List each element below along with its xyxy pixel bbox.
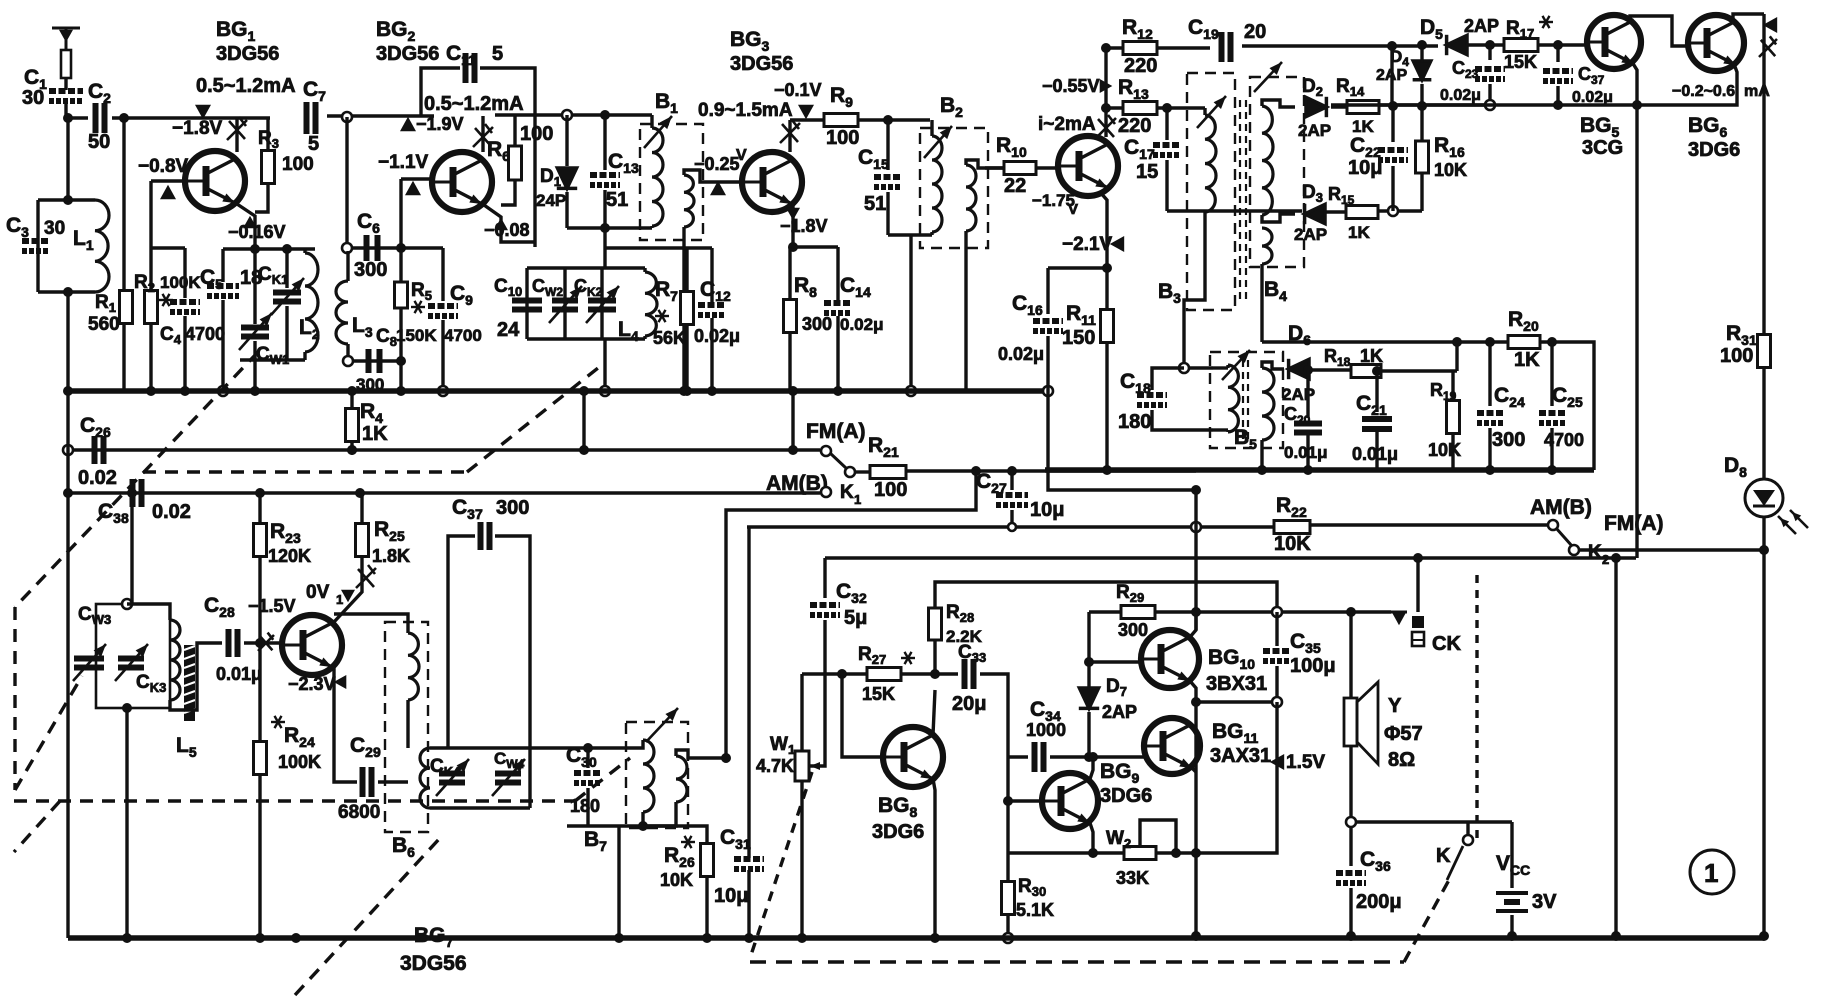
svg-text:1K: 1K <box>1360 346 1383 366</box>
wire W1 top to R27 <box>802 672 866 675</box>
wire C11 to right loop <box>480 68 535 247</box>
wire R5 bottom <box>399 308 402 361</box>
wire tank bottom <box>38 290 68 293</box>
B1 primary coil <box>652 128 663 226</box>
wire speaker bottom <box>1349 746 1352 822</box>
B2 tuning arrow <box>924 126 952 158</box>
base marker BG2 <box>400 117 416 131</box>
wire B2 to R10 <box>985 166 1004 169</box>
wire D7 top <box>1087 662 1090 690</box>
transistor BG5 <box>1587 15 1641 69</box>
capacitor C38 <box>133 479 142 507</box>
svg-text:220: 220 <box>1118 115 1151 137</box>
wire left border <box>66 391 69 938</box>
capacitor C2 <box>96 103 105 133</box>
W2 wiper loop <box>1140 820 1176 853</box>
wire K2 out <box>1578 548 1764 551</box>
svg-text:0.01μ: 0.01μ <box>1352 444 1398 464</box>
wire C7 to BG2 <box>327 114 434 117</box>
circled 1 <box>1690 850 1734 894</box>
svg-text:10μ: 10μ <box>714 885 748 907</box>
wire B2 secondary to R10 <box>966 160 1004 168</box>
transistor BG7 <box>282 615 342 675</box>
adjust mark base <box>258 633 274 651</box>
wire tank2 top link <box>605 246 712 249</box>
wire B2 primary bottom <box>930 232 933 235</box>
capacitor C9 <box>428 306 458 316</box>
resistor R25 <box>356 524 369 557</box>
wire mid vertical to bottom bus <box>1614 558 1617 936</box>
wire BG10 base feed <box>1089 612 1141 662</box>
diode D2 <box>1306 97 1326 117</box>
svg-text:10μ: 10μ <box>1348 157 1382 179</box>
wire C9 branch <box>441 248 444 301</box>
svg-text:3DG6: 3DG6 <box>1100 785 1152 807</box>
wire C6 branch <box>345 117 348 248</box>
wire W1 top <box>800 674 803 751</box>
switch K <box>1466 822 1469 834</box>
svg-text:0.02μ: 0.02μ <box>998 344 1044 364</box>
wire C17 bottom <box>1165 160 1168 211</box>
wire C33 out <box>980 674 1008 853</box>
svg-text:V: V <box>736 147 747 164</box>
svg-text:0.01μ: 0.01μ <box>216 664 262 684</box>
variable capacitor CW1 <box>241 328 269 337</box>
wire R9 to B2 <box>858 118 930 121</box>
wire R17 to BG5 <box>1538 43 1586 46</box>
emitter path BG3 <box>791 204 794 247</box>
wire C32 top <box>823 558 826 598</box>
wire R7 bottom <box>685 324 688 391</box>
wire BG1 base <box>151 179 185 182</box>
wire C25 bottom <box>1550 428 1553 470</box>
wire tank2 to bus <box>603 339 606 391</box>
wire C35 down to W2 <box>1156 702 1277 853</box>
wire R25 to BG7 collector <box>334 556 362 622</box>
wire B1 secondary to BG3 base <box>684 170 742 182</box>
transistor BG2 <box>432 152 492 212</box>
resistor R31 <box>1758 335 1771 368</box>
svg-text:100: 100 <box>826 127 859 149</box>
svg-text:10K: 10K <box>1428 440 1461 460</box>
svg-text:50: 50 <box>88 131 110 153</box>
svg-text:K: K <box>840 482 854 503</box>
wire BG6 collector to top right corner <box>1733 14 1764 23</box>
B5 core lines <box>1242 360 1244 440</box>
node tank3 bottom <box>122 703 132 713</box>
transistor BG9 <box>1042 773 1098 829</box>
transistor BG6 <box>1688 15 1744 71</box>
wire R26 bottom <box>705 876 708 938</box>
wire D6 to R18 <box>1310 368 1352 371</box>
wire C13 top <box>603 115 606 170</box>
wire IF takeoff to 2nd tank <box>603 228 606 268</box>
capacitor C17 <box>1153 145 1181 155</box>
svg-text:10K: 10K <box>1434 160 1467 180</box>
svg-text:3DG56: 3DG56 <box>730 53 793 75</box>
svg-text:0.02μ: 0.02μ <box>1440 87 1481 104</box>
emitter path BG4 <box>1100 192 1107 312</box>
wire to R20 <box>1457 340 1508 343</box>
wire to FM contact <box>584 448 820 451</box>
wire BG3 collector <box>788 120 791 152</box>
gang link horizontal <box>143 470 467 473</box>
wire CW2 branch <box>563 268 566 339</box>
svg-text:180: 180 <box>570 796 600 816</box>
wire tank4 right <box>528 748 531 808</box>
wire C26 line <box>72 448 584 451</box>
wire C32 to W1 wiper <box>810 620 825 766</box>
capacitor C7 <box>307 102 316 134</box>
capacitor C1 <box>49 91 83 101</box>
svg-text:−1.1V: −1.1V <box>378 152 429 173</box>
B7 secondary coil <box>676 756 687 802</box>
wire R5 top <box>399 248 402 282</box>
wire main ground bus <box>68 388 1048 394</box>
wire R4 bottom <box>350 442 353 450</box>
antenna <box>52 28 80 50</box>
wire BG2 collector <box>481 116 484 152</box>
wire tank2 top <box>527 266 645 269</box>
wire R20 to C25 branch <box>1540 342 1594 470</box>
wire C38 to tank3 <box>130 493 133 604</box>
svg-text:−0.25: −0.25 <box>694 154 740 174</box>
B3 primary coil <box>1205 115 1216 212</box>
resistor R23 <box>254 524 267 557</box>
wire tank top <box>38 198 68 201</box>
diode D6 <box>1289 359 1309 379</box>
wire tank to bus <box>253 360 256 391</box>
resistor R5 <box>395 282 408 308</box>
wire B1 primary top <box>650 115 653 128</box>
svg-text:4700: 4700 <box>185 324 225 344</box>
capacitor C16 <box>1033 321 1063 331</box>
wire R19 bottom <box>1451 434 1454 470</box>
wire BG4 collector <box>1104 48 1107 137</box>
contact K2 AM <box>1548 520 1558 530</box>
wire C35 bottom <box>1275 666 1278 702</box>
capacitor C37 <box>1543 71 1573 81</box>
B4 tuning arrow <box>1254 62 1282 92</box>
capacitor C29 <box>363 767 372 797</box>
wire output node <box>1196 700 1277 703</box>
switch K1 lever <box>830 453 847 469</box>
wire audio supply top <box>825 556 1636 559</box>
wire right border lower <box>1762 517 1765 936</box>
inductor L3 <box>336 281 348 344</box>
wire C13 bottom <box>603 190 606 228</box>
wire R29 to output node <box>1155 610 1391 613</box>
wire R22 line <box>747 525 1274 528</box>
wire BG2 collector to B1 <box>495 113 652 116</box>
gang link to CK4 <box>295 838 440 995</box>
wire C25 top <box>1550 342 1553 406</box>
svg-text:FM(A): FM(A) <box>806 420 865 443</box>
svg-text:−1.9V: −1.9V <box>416 114 464 134</box>
wire W1 bottom <box>800 781 803 938</box>
svg-text:4700: 4700 <box>1544 430 1584 450</box>
transistor BG11 <box>1144 718 1200 774</box>
node L1 top <box>63 195 73 205</box>
capacitor C10 <box>512 301 542 310</box>
wire L2 bottom <box>303 352 306 360</box>
contact K1 common <box>845 467 855 477</box>
junction bottom <box>291 933 301 943</box>
svg-text:−0.08: −0.08 <box>484 220 530 240</box>
wire C17 top <box>1165 108 1168 140</box>
wire B7 secondary top <box>676 750 726 758</box>
trimmer capacitor CK1 <box>273 293 301 302</box>
wire C29 to B6 <box>378 780 408 783</box>
transistor BG8 <box>883 727 943 787</box>
wire R21 out <box>906 469 1196 472</box>
wire C19 to D5 <box>1242 44 1438 47</box>
emitter path BG7 <box>334 668 357 782</box>
wire BG2 base <box>401 177 432 180</box>
jack linkage dashed <box>1475 575 1478 838</box>
wire R7 top <box>685 248 688 292</box>
wire jack top <box>1416 558 1419 612</box>
wire B7 primary top <box>626 740 643 748</box>
svg-text:10μ: 10μ <box>1030 499 1064 521</box>
wire BG10 emitter to ground bus <box>1194 702 1197 936</box>
wire B3 primary bottom <box>1184 212 1205 368</box>
wire base to bias node <box>399 179 402 248</box>
wire K switch line <box>1356 820 1512 823</box>
wire C24 top <box>1488 342 1491 406</box>
wire D1 bottom <box>565 192 568 228</box>
svg-text:300: 300 <box>496 497 529 519</box>
wire C22 bottom <box>1391 166 1394 211</box>
capacitor C8 <box>369 349 380 373</box>
wire C5 bottom <box>221 300 224 391</box>
svg-text:0.5~1.2mA: 0.5~1.2mA <box>424 93 524 115</box>
wire B4 top tap to D2 <box>1262 100 1295 107</box>
wire B7 secondary bottom <box>643 802 676 826</box>
B1 secondary coil <box>684 175 694 227</box>
wire C36 bottom <box>1349 888 1352 936</box>
collector arrow BG7 <box>341 590 355 603</box>
antenna lead-in rod <box>61 50 71 78</box>
collector current arrow BG1 <box>195 105 211 119</box>
wire D7 bottom <box>1087 712 1090 757</box>
svg-text:1: 1 <box>854 492 861 507</box>
wire C15 to B2 bottom <box>888 233 932 236</box>
wire L1 to bus <box>66 292 69 391</box>
contact K2 common <box>1569 545 1579 555</box>
svg-text:−2.1V: −2.1V <box>1062 234 1113 255</box>
svg-text:300: 300 <box>1118 620 1148 640</box>
diode D7 <box>1079 688 1099 708</box>
gang link CW1 to CW3 <box>15 352 258 607</box>
capacitor C21 <box>1362 419 1392 429</box>
wire battery top <box>1510 822 1513 888</box>
svg-text:−1.5V: −1.5V <box>248 596 296 616</box>
wire C27 top <box>1010 471 1013 490</box>
wire R27 to C33 <box>901 672 958 675</box>
wire tank3 bottom to bus <box>125 708 128 938</box>
wire BG8 collector <box>933 690 935 735</box>
wire CW1 bottom <box>253 341 256 360</box>
transformer B7 box <box>626 722 688 828</box>
wire BG1 collector <box>235 118 238 152</box>
B4 secondary coil <box>1262 106 1273 215</box>
wire C24 bottom <box>1488 428 1491 470</box>
resistor R4 <box>346 409 359 442</box>
capacitor C25 <box>1539 413 1565 423</box>
wire tank4 to B7 <box>530 746 626 749</box>
wire L3 top <box>346 251 349 281</box>
svg-text:1K: 1K <box>362 423 388 445</box>
wire CK2 branch <box>600 268 603 339</box>
wire C16 bottom <box>1046 336 1049 391</box>
adjust mark BG7 <box>356 565 376 588</box>
voltage arrow -0.55V <box>1100 79 1113 93</box>
wire BG10 emitter <box>1190 681 1196 702</box>
capacitor C5 <box>207 286 239 296</box>
open node bus right end <box>1043 386 1053 396</box>
svg-text:−0.1V: −0.1V <box>774 80 822 100</box>
wire osc tank bottom <box>240 358 305 361</box>
svg-text:200μ: 200μ <box>1356 891 1402 913</box>
select mark R2 <box>159 294 173 306</box>
wire C17 to D3 <box>1167 209 1302 212</box>
adjust mark top right <box>1759 36 1777 57</box>
wire center feed to BG10 <box>1194 527 1197 630</box>
wire R12 to C19 <box>1157 46 1210 49</box>
capacitor C37b loop <box>448 536 475 748</box>
wire speaker line <box>1349 612 1352 698</box>
wire BG6 emitter <box>1637 64 1737 105</box>
svg-text:300: 300 <box>1492 429 1525 451</box>
wire C35 top <box>1275 612 1278 646</box>
wire B1 secondary bottom to ground <box>682 227 685 391</box>
wire C37 top <box>1556 45 1559 62</box>
wire R11 to bus2 <box>1105 342 1108 470</box>
svg-text:150K: 150K <box>396 326 437 345</box>
transformer B1 box <box>640 124 703 240</box>
B5 secondary coil <box>1262 368 1274 440</box>
svg-text:3DG6: 3DG6 <box>872 821 924 843</box>
wire base bias down <box>149 181 152 248</box>
wire C28 to BG7 base <box>244 641 282 644</box>
svg-text:2AP: 2AP <box>1294 225 1327 244</box>
svg-text:1.5V: 1.5V <box>1286 752 1325 773</box>
svg-text:56K: 56K <box>653 328 686 348</box>
svg-text:CK: CK <box>1432 633 1461 655</box>
wire BG5 emitter <box>1632 62 1637 105</box>
B3 tuning arrow <box>1197 96 1226 128</box>
wire D3 to R15 <box>1326 210 1346 213</box>
base arrow BG2 <box>405 181 421 195</box>
wire bias row <box>351 246 443 249</box>
resistor R20 <box>1508 336 1540 349</box>
wire detector output to R20 <box>1262 340 1457 343</box>
resistor R10 <box>1004 162 1036 175</box>
adjust mark BG2 collector <box>473 124 493 147</box>
capacitor C37 osc <box>481 522 490 550</box>
inductor L2 <box>305 253 318 352</box>
B5 tuning arrow <box>1222 350 1250 380</box>
B4 tertiary coil <box>1262 228 1272 264</box>
resistor R18 <box>1351 365 1381 378</box>
diode D5 <box>1447 35 1467 55</box>
transformer B5 box <box>1210 352 1283 448</box>
transformer B2 box <box>920 128 988 248</box>
svg-text:3V: 3V <box>1532 891 1557 913</box>
wire tank top right <box>68 198 95 201</box>
svg-text:0.02μ: 0.02μ <box>840 315 884 334</box>
wire B2 secondary bottom to ground <box>964 231 967 391</box>
wire emitter node <box>793 245 838 248</box>
svg-text:1K: 1K <box>1514 349 1540 371</box>
svg-text:2AP: 2AP <box>1376 67 1407 84</box>
wire secondary ground bus <box>1045 467 1594 473</box>
capacitor C12 <box>698 305 726 315</box>
capacitor C18 <box>1137 395 1167 405</box>
emitter path BG2 <box>484 205 535 242</box>
open node C26 left <box>63 445 73 455</box>
wire tank bottom right <box>68 290 95 293</box>
arrow top right <box>1763 17 1777 33</box>
svg-text:0.5~1.2mA: 0.5~1.2mA <box>196 75 296 97</box>
wire D2 to R14 <box>1331 105 1348 108</box>
B3-B4 core lines <box>1239 100 1241 300</box>
wire C16 branch <box>1048 266 1107 269</box>
wire C21 top <box>1375 371 1378 412</box>
capacitor C36 <box>1336 873 1366 883</box>
wire BG11 collector <box>1192 768 1196 772</box>
wire C34 left <box>1008 755 1028 758</box>
wire C20 top <box>1306 370 1309 418</box>
wire node down to L1 tank <box>66 118 69 200</box>
node C2 out <box>119 113 129 123</box>
variable capacitor CW4 <box>495 774 521 783</box>
svg-text:22: 22 <box>1004 175 1026 197</box>
diode D3 <box>1305 204 1325 224</box>
wire R19 top <box>1451 371 1454 400</box>
svg-text:20μ: 20μ <box>952 693 986 715</box>
resistor R21 <box>870 466 906 479</box>
wire BG9 base <box>1008 799 1042 802</box>
wire osc tank CK4 <box>430 746 530 749</box>
LED D8 <box>1745 479 1783 517</box>
wire B2 primary top <box>930 120 933 136</box>
svg-text:15K: 15K <box>1504 52 1537 72</box>
wire CK1 top <box>285 249 288 288</box>
wire B5 input <box>1184 366 1213 369</box>
contact K1 FM <box>821 446 831 456</box>
svg-text:2AP: 2AP <box>1102 702 1137 722</box>
inductor L4 <box>645 272 657 336</box>
svg-text:3AX31: 3AX31 <box>1210 745 1271 767</box>
inductor L1 <box>95 200 109 292</box>
transistor BG4 <box>1058 136 1118 196</box>
wire C4 bottom <box>183 316 186 391</box>
capacitor C19 <box>1222 32 1231 62</box>
wire D1-C13-B1 bottom <box>567 226 652 229</box>
wire D1 top <box>565 115 568 166</box>
svg-text:5.1K: 5.1K <box>1016 900 1054 920</box>
wire R13 to B3 <box>1157 106 1205 109</box>
jack CK <box>1391 611 1407 614</box>
wire CK1 bottom <box>285 306 288 360</box>
wire B5 primary leads <box>1213 366 1228 369</box>
svg-text:8Ω: 8Ω <box>1388 749 1415 771</box>
svg-text:4700: 4700 <box>444 326 482 345</box>
svg-text:180: 180 <box>1118 411 1151 433</box>
capacitor C32 <box>810 605 840 615</box>
